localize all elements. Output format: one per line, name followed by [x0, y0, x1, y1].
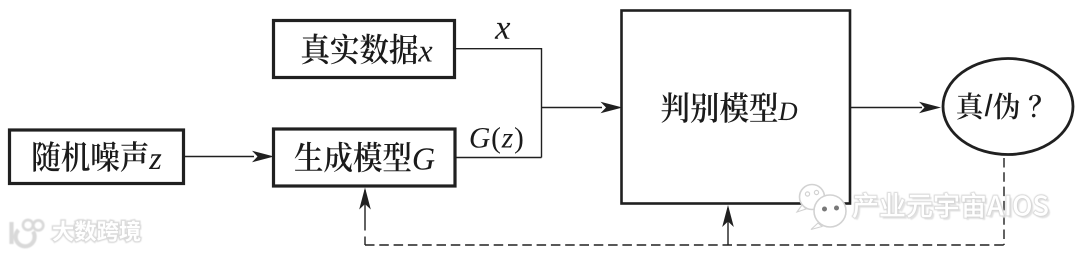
watermark text 产业元宇宙AIOS	[853, 193, 1050, 221]
arrowhead up into 判别模型D	[722, 205, 734, 227]
label 生成模型G	[295, 142, 435, 173]
wire x: 真实数据 right then down	[455, 49, 542, 158]
label 真/伪？	[957, 92, 1041, 119]
label 随机噪声z	[33, 141, 161, 172]
box 随机噪声z (random noise)	[10, 130, 184, 184]
watermark text 大数跨境	[53, 220, 141, 241]
arrowhead into 生成模型G	[252, 151, 274, 163]
feedback riser into 生成模型G	[364, 190, 366, 245]
arrowhead into 判别模型D	[601, 102, 623, 114]
label 判别模型D	[662, 92, 798, 123]
dashed feedback wire: bottom horizontal	[365, 244, 1004, 246]
box 生成模型G (generator)	[274, 129, 456, 186]
ellipse 真/伪? (real/fake output)	[943, 59, 1073, 155]
label 真实数据x	[302, 34, 433, 65]
arrowhead into ellipse	[919, 102, 941, 114]
wire G(z): 生成模型 to junction	[455, 157, 542, 159]
dashed feedback wire: ellipse down	[1003, 158, 1005, 245]
watermark logo chat bubbles (bottom right)	[797, 185, 846, 230]
arrowhead up into 生成模型G	[359, 188, 371, 210]
label x on wire	[495, 23, 511, 39]
feedback riser into 判别模型D	[727, 208, 729, 245]
wire z: 随机噪声 to 生成模型	[184, 156, 255, 158]
watermark logo 100 (bottom left)	[12, 222, 35, 246]
box 判别模型D (discriminator)	[622, 11, 851, 204]
box 真实数据x (real data)	[274, 21, 455, 78]
wire junction to 判别模型D	[542, 107, 603, 109]
wire 判别模型D to output ellipse	[850, 107, 922, 109]
label G(z) on wire	[471, 127, 523, 154]
